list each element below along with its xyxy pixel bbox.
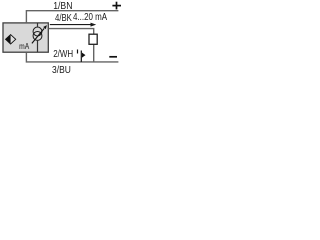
output 2 connector mark [77, 50, 79, 54]
svg-text:mA: mA [19, 41, 29, 51]
svg-text:4...20 mA: 4...20 mA [73, 11, 108, 22]
wire 3/BU (L-) rail [26, 52, 118, 62]
source stubs [37, 23, 39, 28]
wire 4/BK [49, 29, 94, 62]
wire 1/BN (L+) [26, 11, 118, 23]
diamond indicator [6, 35, 16, 44]
current source circles [33, 27, 42, 36]
minus terminal [109, 56, 117, 58]
svg-text:3/BU: 3/BU [52, 64, 71, 74]
sensor box [3, 23, 48, 52]
load resistor [89, 34, 97, 44]
svg-text:2/WH: 2/WH [53, 48, 73, 59]
plus terminal [112, 5, 121, 7]
source variable arrow [32, 28, 44, 43]
svg-text:4/BK: 4/BK [55, 12, 72, 23]
current direction arrow 4...20 mA [50, 24, 91, 26]
svg-text:1/BN: 1/BN [53, 0, 72, 11]
